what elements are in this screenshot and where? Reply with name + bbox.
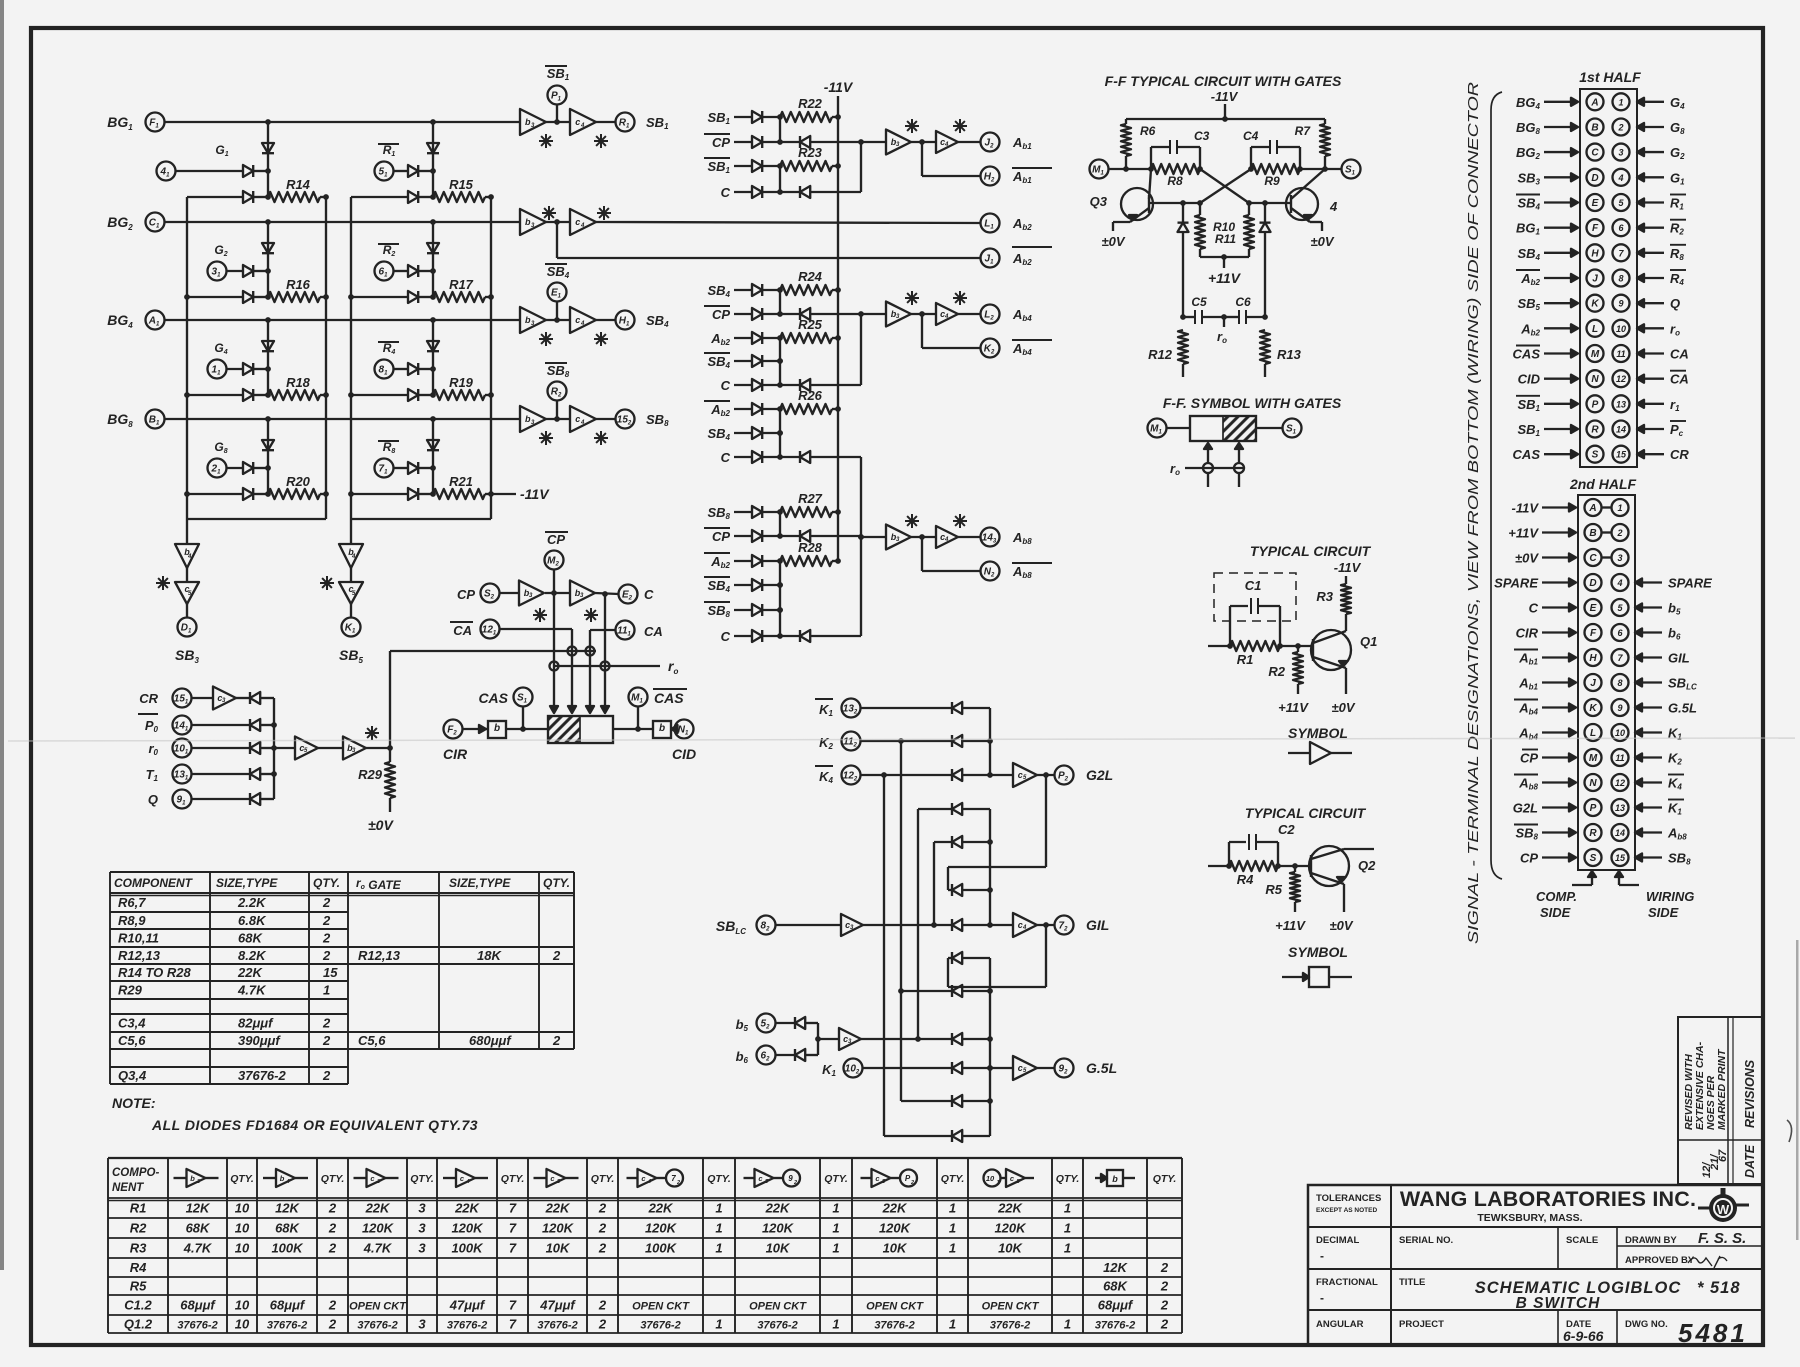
- svg-text:R18: R18: [286, 375, 311, 390]
- connector 2nd half pin E5: [1529, 599, 1681, 617]
- svg-text:SB1: SB1: [1517, 422, 1540, 438]
- node SB8 input row y610: [704, 602, 783, 619]
- svg-text:GIL: GIL: [1668, 651, 1690, 666]
- wire c3 out row y1039: [861, 1036, 952, 1042]
- svg-text:c: c: [758, 1174, 763, 1183]
- svg-text:CR: CR: [139, 691, 158, 706]
- component table row R29: [118, 983, 330, 998]
- svg-text:68μμf: 68μμf: [1098, 1298, 1134, 1313]
- svg-text:R1: R1: [1237, 652, 1254, 667]
- svg-text:SBLC: SBLC: [1668, 676, 1697, 692]
- wire bus x948 upper: [947, 867, 949, 890]
- resistor R11: [1215, 203, 1254, 249]
- diode net y1039: [952, 1033, 990, 1045]
- diode clamp right band2: [427, 222, 439, 297]
- svg-text:6: 6: [1617, 628, 1623, 638]
- wire bus x934: [933, 842, 935, 925]
- svg-text:4: 4: [580, 321, 585, 327]
- junction taps on CP/C lines: [550, 662, 559, 671]
- svg-text:S2: S2: [484, 589, 495, 601]
- diode AND output y142: [780, 136, 861, 148]
- svg-text:51: 51: [379, 167, 389, 179]
- asterisk b3 CR section: [365, 726, 379, 740]
- connector 2nd half pin F6: [1516, 624, 1681, 642]
- svg-text:DATE: DATE: [1743, 1144, 1757, 1178]
- label REVISIONS: [1743, 1059, 1757, 1128]
- node b6 input terminal 6_2: [736, 1046, 776, 1066]
- diode clamp left band1: [262, 122, 274, 197]
- svg-text:R5: R5: [1265, 882, 1282, 897]
- svg-text:1: 1: [715, 1201, 722, 1216]
- svg-text:R22: R22: [798, 96, 823, 111]
- svg-text:COMP.: COMP.: [1536, 889, 1577, 904]
- svg-text:CIR: CIR: [443, 746, 468, 762]
- resistor R29: [358, 748, 395, 798]
- wire AND tie x780 y166-192: [779, 166, 781, 192]
- inverter c5 CR section: [274, 737, 318, 760]
- label 2nd HALF: [1569, 476, 1637, 492]
- asterisk c4 y537: [953, 514, 967, 528]
- connector 2nd half pin M11: [1520, 749, 1682, 767]
- svg-text:r0: r0: [148, 741, 158, 757]
- wire block3 output down to block4: [858, 457, 864, 540]
- diode G8 gating: [227, 462, 271, 474]
- svg-text:L2: L2: [984, 310, 994, 322]
- node CP input row y314: [704, 306, 783, 322]
- wire R10 R11 to +11V: [1200, 249, 1249, 268]
- node CR input terminal 151: [139, 689, 191, 708]
- wire OR bus GIL: [987, 809, 993, 925]
- wire box1 bottom edge: [187, 518, 326, 520]
- wire BG1 row: [165, 119, 521, 125]
- svg-text:2: 2: [328, 1201, 337, 1216]
- inverter c5 chain x187: [175, 582, 199, 604]
- label -11V left matrix: [491, 486, 550, 502]
- svg-text:R2: R2: [1670, 221, 1684, 237]
- svg-text:7: 7: [509, 1298, 517, 1313]
- svg-text:SERIAL NO.: SERIAL NO.: [1399, 1235, 1453, 1246]
- component table row C5,6 gate: [358, 1033, 561, 1048]
- diode net y890: [952, 884, 990, 896]
- svg-text:M: M: [1589, 753, 1598, 764]
- transistor Q3: [1090, 169, 1153, 231]
- diode clamp right band4: [427, 419, 439, 494]
- svg-text:c: c: [1018, 1063, 1023, 1073]
- diode R4bar gating: [394, 363, 436, 375]
- node C input row y457: [721, 450, 783, 465]
- component table row R14 TO R28: [118, 965, 338, 980]
- wire net row y1101: [901, 1100, 952, 1102]
- svg-text:-11V: -11V: [824, 79, 854, 95]
- wire Q2 collector out: [1344, 848, 1374, 850]
- svg-text:2: 2: [322, 948, 331, 963]
- svg-text:CP: CP: [712, 307, 730, 322]
- wire b3-c4 junction y537: [911, 534, 936, 540]
- svg-text:C2: C2: [1278, 822, 1295, 837]
- asterisk b3 CP first: [533, 608, 547, 622]
- svg-text:L1: L1: [984, 219, 994, 231]
- wire symbol stubs below: [1208, 473, 1239, 487]
- wire C junction to box: [601, 594, 609, 713]
- svg-text:2: 2: [552, 1033, 561, 1048]
- svg-text:22K: 22K: [997, 1201, 1023, 1216]
- svg-text:CR: CR: [1670, 447, 1689, 462]
- svg-text:2: 2: [552, 948, 561, 963]
- connector 1st half pin D4: [1517, 169, 1685, 187]
- svg-text:SB4: SB4: [1517, 246, 1540, 262]
- wire b3 input y537: [858, 534, 886, 540]
- diode net y775: [952, 769, 990, 781]
- svg-text:2: 2: [598, 1201, 607, 1216]
- svg-text:R3: R3: [1316, 589, 1333, 604]
- resistor R26: [780, 388, 841, 414]
- diode left row1: [187, 191, 271, 203]
- wire S1 to Q4 collector node: [1300, 166, 1342, 172]
- buffer b CIR: [488, 721, 506, 738]
- svg-text:22K: 22K: [545, 1201, 571, 1216]
- svg-text:SB1: SB1: [646, 115, 669, 131]
- resistor R21: [433, 474, 494, 499]
- node r0 input terminal 101: [148, 739, 191, 758]
- diode net y809: [952, 803, 990, 815]
- svg-text:120K: 120K: [451, 1221, 484, 1236]
- svg-text:b5: b5: [1668, 601, 1681, 617]
- svg-text:Ab2: Ab2: [1520, 321, 1540, 337]
- svg-text:SB8: SB8: [1668, 851, 1691, 867]
- resistor R24: [780, 269, 841, 295]
- label title schematic: [1399, 1277, 1741, 1312]
- label 1st HALF: [1579, 69, 1641, 85]
- svg-text:G2: G2: [214, 243, 227, 258]
- asterisk c4 band4: [594, 431, 608, 445]
- svg-text:1: 1: [832, 1201, 839, 1216]
- svg-text:B1: B1: [149, 415, 160, 427]
- bottom table grid: [108, 1158, 1182, 1333]
- svg-text:82μμf: 82μμf: [238, 1016, 274, 1031]
- svg-text:NENT: NENT: [112, 1182, 144, 1194]
- wire K4bar row: [861, 772, 953, 778]
- wire BG2 row: [165, 219, 521, 225]
- label serial no: [1399, 1235, 1453, 1246]
- node S1 symbol terminal: [1283, 419, 1302, 438]
- wire G2L feedback: [948, 775, 1046, 867]
- wire K1 row: [863, 1067, 953, 1069]
- wire R2 to +11V: [1297, 684, 1299, 694]
- capacitor C5: [1183, 295, 1224, 324]
- node R2bar input terminal 61: [375, 243, 400, 281]
- svg-text:4: 4: [647, 1179, 651, 1185]
- diode CR row: [236, 692, 274, 704]
- svg-text:R11: R11: [1215, 232, 1236, 246]
- resistor R16: [268, 277, 329, 302]
- connector 2nd half pin J8: [1518, 674, 1697, 692]
- svg-text:2: 2: [328, 1317, 337, 1332]
- svg-text:R9: R9: [1264, 174, 1280, 188]
- node T1 input terminal 131: [146, 765, 192, 784]
- wire r0 tap line: [554, 658, 678, 676]
- svg-text:10K: 10K: [998, 1241, 1023, 1256]
- label SYMBOL TC2: [1288, 944, 1348, 960]
- svg-text:3: 3: [377, 1179, 380, 1185]
- buffer b3 CP second: [570, 581, 595, 606]
- svg-text:P: P: [1592, 399, 1599, 410]
- component table row R12,13 gate: [358, 948, 561, 963]
- svg-text:K2: K2: [984, 344, 995, 356]
- svg-text:SPARE: SPARE: [1668, 576, 1712, 591]
- svg-text:120K: 120K: [362, 1221, 395, 1236]
- svg-text:68K: 68K: [238, 931, 263, 946]
- svg-text:47μμf: 47μμf: [449, 1298, 486, 1313]
- svg-text:15: 15: [323, 965, 338, 980]
- diode right row2: [351, 291, 436, 303]
- label revision date: [1701, 1149, 1729, 1178]
- svg-text:22K: 22K: [648, 1201, 674, 1216]
- svg-text:c: c: [370, 1174, 375, 1183]
- svg-text:3: 3: [418, 1317, 426, 1332]
- svg-text:SCALE: SCALE: [1566, 1235, 1598, 1246]
- svg-text:120K: 120K: [879, 1221, 912, 1236]
- wire rail to b4 chain x351: [350, 519, 352, 544]
- node SB8 input row y512: [707, 505, 782, 521]
- node SB8bar output terminal R2: [545, 363, 570, 419]
- svg-text:143: 143: [982, 533, 997, 545]
- connector 1st half pin B2: [1516, 119, 1685, 137]
- svg-text:b: b: [659, 723, 665, 734]
- svg-text:b: b: [280, 1174, 285, 1183]
- node SB8 output terminal 15_2: [596, 410, 669, 429]
- capacitor C6: [1224, 295, 1265, 324]
- svg-text:15: 15: [1616, 450, 1627, 460]
- inverter c5 chain x351: [339, 582, 363, 604]
- bottom table row R4: [130, 1260, 1169, 1275]
- svg-text:R1: R1: [1670, 196, 1684, 212]
- node SB1 input row y166: [704, 158, 783, 175]
- svg-text:G4: G4: [1670, 95, 1685, 111]
- diode net y1101: [952, 1095, 990, 1107]
- svg-text:2.2K: 2.2K: [237, 895, 267, 910]
- svg-text:37676-2: 37676-2: [447, 1320, 487, 1332]
- buffer b CID: [653, 721, 671, 738]
- svg-text:D: D: [1589, 578, 1596, 589]
- dashed box C1: [1214, 573, 1296, 621]
- svg-text:OPEN CKT: OPEN CKT: [749, 1301, 807, 1313]
- svg-text:CP: CP: [547, 532, 565, 547]
- asterisk c4 band3: [594, 332, 608, 346]
- diode R2bar gating: [394, 265, 436, 277]
- wire OR tie x861 block2: [860, 314, 862, 385]
- svg-text:G2L: G2L: [1513, 801, 1538, 816]
- svg-text:QTY.: QTY.: [501, 1173, 525, 1185]
- inverter c4 band3: [570, 307, 596, 333]
- svg-text:10: 10: [235, 1241, 250, 1256]
- svg-text:2: 2: [1160, 1260, 1169, 1275]
- svg-text:1: 1: [1617, 503, 1622, 513]
- wire -11V bus: [837, 96, 839, 561]
- svg-text:2: 2: [793, 1180, 797, 1186]
- svg-text:1: 1: [715, 1221, 722, 1236]
- svg-text:1st HALF: 1st HALF: [1579, 69, 1641, 85]
- svg-text:SIZE,TYPE: SIZE,TYPE: [449, 876, 511, 890]
- svg-text:R2: R2: [383, 243, 396, 258]
- svg-text:2: 2: [328, 1221, 337, 1236]
- node Ab2 output terminal L1: [981, 214, 1033, 233]
- label +-0V Q3: [1101, 234, 1125, 249]
- svg-text:F-F. SYMBOL WITH GATES: F-F. SYMBOL WITH GATES: [1163, 395, 1342, 411]
- node SB1 input row y117: [707, 110, 782, 126]
- svg-text:3: 3: [1618, 148, 1623, 158]
- wire cross couple 2: [1200, 169, 1251, 203]
- wire box1 left rail: [186, 197, 188, 519]
- svg-text:NOTE:: NOTE:: [112, 1095, 156, 1111]
- bottom table row R1: [130, 1201, 1071, 1216]
- wire AND tie x780 y117-142: [779, 117, 781, 142]
- svg-text:CID: CID: [1518, 372, 1541, 387]
- svg-text:4: 4: [1616, 578, 1622, 588]
- svg-text:MARKED PRINT: MARKED PRINT: [1716, 1048, 1728, 1130]
- svg-text:J1: J1: [985, 254, 995, 266]
- svg-text:4.7K: 4.7K: [237, 983, 267, 998]
- label F-F typical circuit title: [1105, 73, 1342, 89]
- diode P0 row: [192, 719, 275, 731]
- resistor R4: [1229, 861, 1281, 887]
- node GIL output terminal 7_2: [1037, 916, 1109, 935]
- bottom table row C1.2: [124, 1298, 1169, 1313]
- connector 1st half pin M11: [1513, 345, 1689, 362]
- inverter c4 band4: [570, 406, 596, 432]
- svg-text:b6: b6: [736, 1049, 749, 1065]
- component table header: [114, 876, 570, 892]
- svg-text:Ab8: Ab8: [1012, 530, 1032, 546]
- diode b6: [776, 1049, 819, 1061]
- label revision text: [1683, 1041, 1728, 1130]
- svg-text:R25: R25: [798, 317, 823, 332]
- svg-text:D: D: [1591, 173, 1598, 184]
- svg-text:M1: M1: [1092, 165, 1104, 177]
- wire AND tie x780 y338-385: [777, 338, 783, 385]
- svg-text:6: 6: [1618, 223, 1624, 233]
- svg-text:c: c: [1010, 1174, 1015, 1183]
- resistor R27: [780, 491, 841, 517]
- wire bus x918: [917, 809, 919, 1039]
- svg-text:+11V: +11V: [1508, 526, 1539, 541]
- wire b3-c4 junction band4: [546, 416, 570, 422]
- diode clamp left band2: [262, 222, 274, 297]
- svg-text:R20: R20: [286, 474, 311, 489]
- svg-text:±0V: ±0V: [1515, 551, 1539, 566]
- node Ab1 output terminal J2: [958, 133, 1032, 152]
- label +11V TC2: [1275, 918, 1306, 933]
- node SB4 input row y433: [707, 426, 782, 442]
- diode b5: [776, 1017, 819, 1029]
- asterisk b3 band1: [539, 134, 553, 148]
- svg-text:APPROVED BY: APPROVED BY: [1625, 1255, 1695, 1266]
- label -11V FF: [1211, 89, 1239, 119]
- svg-text:M1: M1: [631, 693, 643, 705]
- svg-text:M2: M2: [547, 556, 559, 568]
- svg-text:2: 2: [1160, 1298, 1169, 1313]
- svg-text:CAS: CAS: [1513, 347, 1541, 362]
- transistor Q2: [1309, 846, 1376, 886]
- svg-text:CP: CP: [1520, 751, 1538, 766]
- svg-text:ALL DIODES FD1684 OR EQUIVALEN: ALL DIODES FD1684 OR EQUIVALENT QTY.73: [151, 1117, 478, 1133]
- svg-text:68μμf: 68μμf: [180, 1298, 216, 1313]
- resistor R5: [1265, 866, 1300, 902]
- node CAS terminal S1: [514, 688, 533, 732]
- svg-text:SPARE: SPARE: [1494, 576, 1538, 591]
- svg-text:B: B: [1589, 528, 1596, 539]
- svg-text:b: b: [190, 1174, 195, 1183]
- label +-0V TC1: [1331, 700, 1355, 715]
- diode net y1136: [952, 1130, 990, 1142]
- label date cell: [1563, 1319, 1604, 1344]
- buffer b3 y142: [886, 130, 911, 155]
- inverter c4 y142: [936, 131, 958, 153]
- svg-text:2: 2: [1160, 1279, 1169, 1294]
- svg-text:M: M: [1591, 349, 1600, 360]
- bracket connector: [1491, 92, 1502, 879]
- capacitor C2: [1229, 822, 1295, 866]
- svg-text:41: 41: [160, 167, 171, 179]
- svg-text:C6: C6: [1235, 295, 1251, 309]
- svg-text:R4: R4: [130, 1260, 147, 1275]
- connector 2nd half pin C3: [1515, 549, 1629, 566]
- diode left row4: [187, 488, 271, 500]
- wire b5b6 tie: [815, 1023, 839, 1055]
- wire BG8 row: [165, 416, 521, 422]
- svg-text:10: 10: [1616, 324, 1626, 334]
- svg-text:68μμf: 68μμf: [270, 1298, 306, 1313]
- svg-text:F. S. S.: F. S. S.: [1698, 1230, 1746, 1247]
- label F-F symbol title: [1163, 395, 1342, 411]
- connector 1st half pin C3: [1516, 144, 1685, 162]
- svg-text:R1: R1: [383, 143, 396, 158]
- scan mark right: [1787, 1120, 1792, 1142]
- svg-text:R3: R3: [130, 1241, 147, 1256]
- svg-text:12K: 12K: [1103, 1260, 1128, 1275]
- svg-text:7: 7: [509, 1317, 517, 1332]
- svg-text:Ab1: Ab1: [1518, 676, 1538, 692]
- svg-text:SIGNAL - TERMINAL DESIGNATIONS: SIGNAL - TERMINAL DESIGNATIONS, VIEW FRO…: [1466, 81, 1482, 944]
- svg-text:68K: 68K: [1103, 1279, 1128, 1294]
- node P0 input terminal 141: [138, 714, 192, 735]
- wire OR tie x861 block4: [860, 537, 862, 636]
- svg-text:10K: 10K: [883, 1241, 908, 1256]
- component table row C5,6: [118, 1033, 331, 1048]
- diode Q row: [192, 793, 275, 805]
- resistor R10: [1195, 203, 1235, 249]
- svg-text:L: L: [1590, 728, 1596, 739]
- svg-text:3: 3: [418, 1221, 426, 1236]
- svg-text:10: 10: [235, 1221, 250, 1236]
- svg-text:K2: K2: [1668, 751, 1682, 767]
- svg-text:67: 67: [1717, 1149, 1729, 1162]
- svg-text:4: 4: [1617, 173, 1623, 183]
- svg-text:J: J: [1592, 274, 1598, 285]
- svg-text:BG2: BG2: [107, 214, 133, 232]
- svg-text:12: 12: [1615, 778, 1625, 788]
- svg-text:4: 4: [351, 554, 356, 560]
- bottom table header: [112, 1167, 1176, 1194]
- svg-text:P1: P1: [551, 91, 562, 103]
- wire CP junction to box: [550, 593, 558, 713]
- wire net row y890: [948, 889, 952, 891]
- svg-text:Ab2: Ab2: [1012, 216, 1032, 232]
- node K1bar input terminal 13_2: [815, 699, 861, 719]
- node SB4 input row y361: [704, 353, 783, 370]
- svg-text:BG1: BG1: [107, 114, 133, 132]
- svg-text:7: 7: [509, 1241, 517, 1256]
- node G8 input terminal 21: [208, 440, 228, 478]
